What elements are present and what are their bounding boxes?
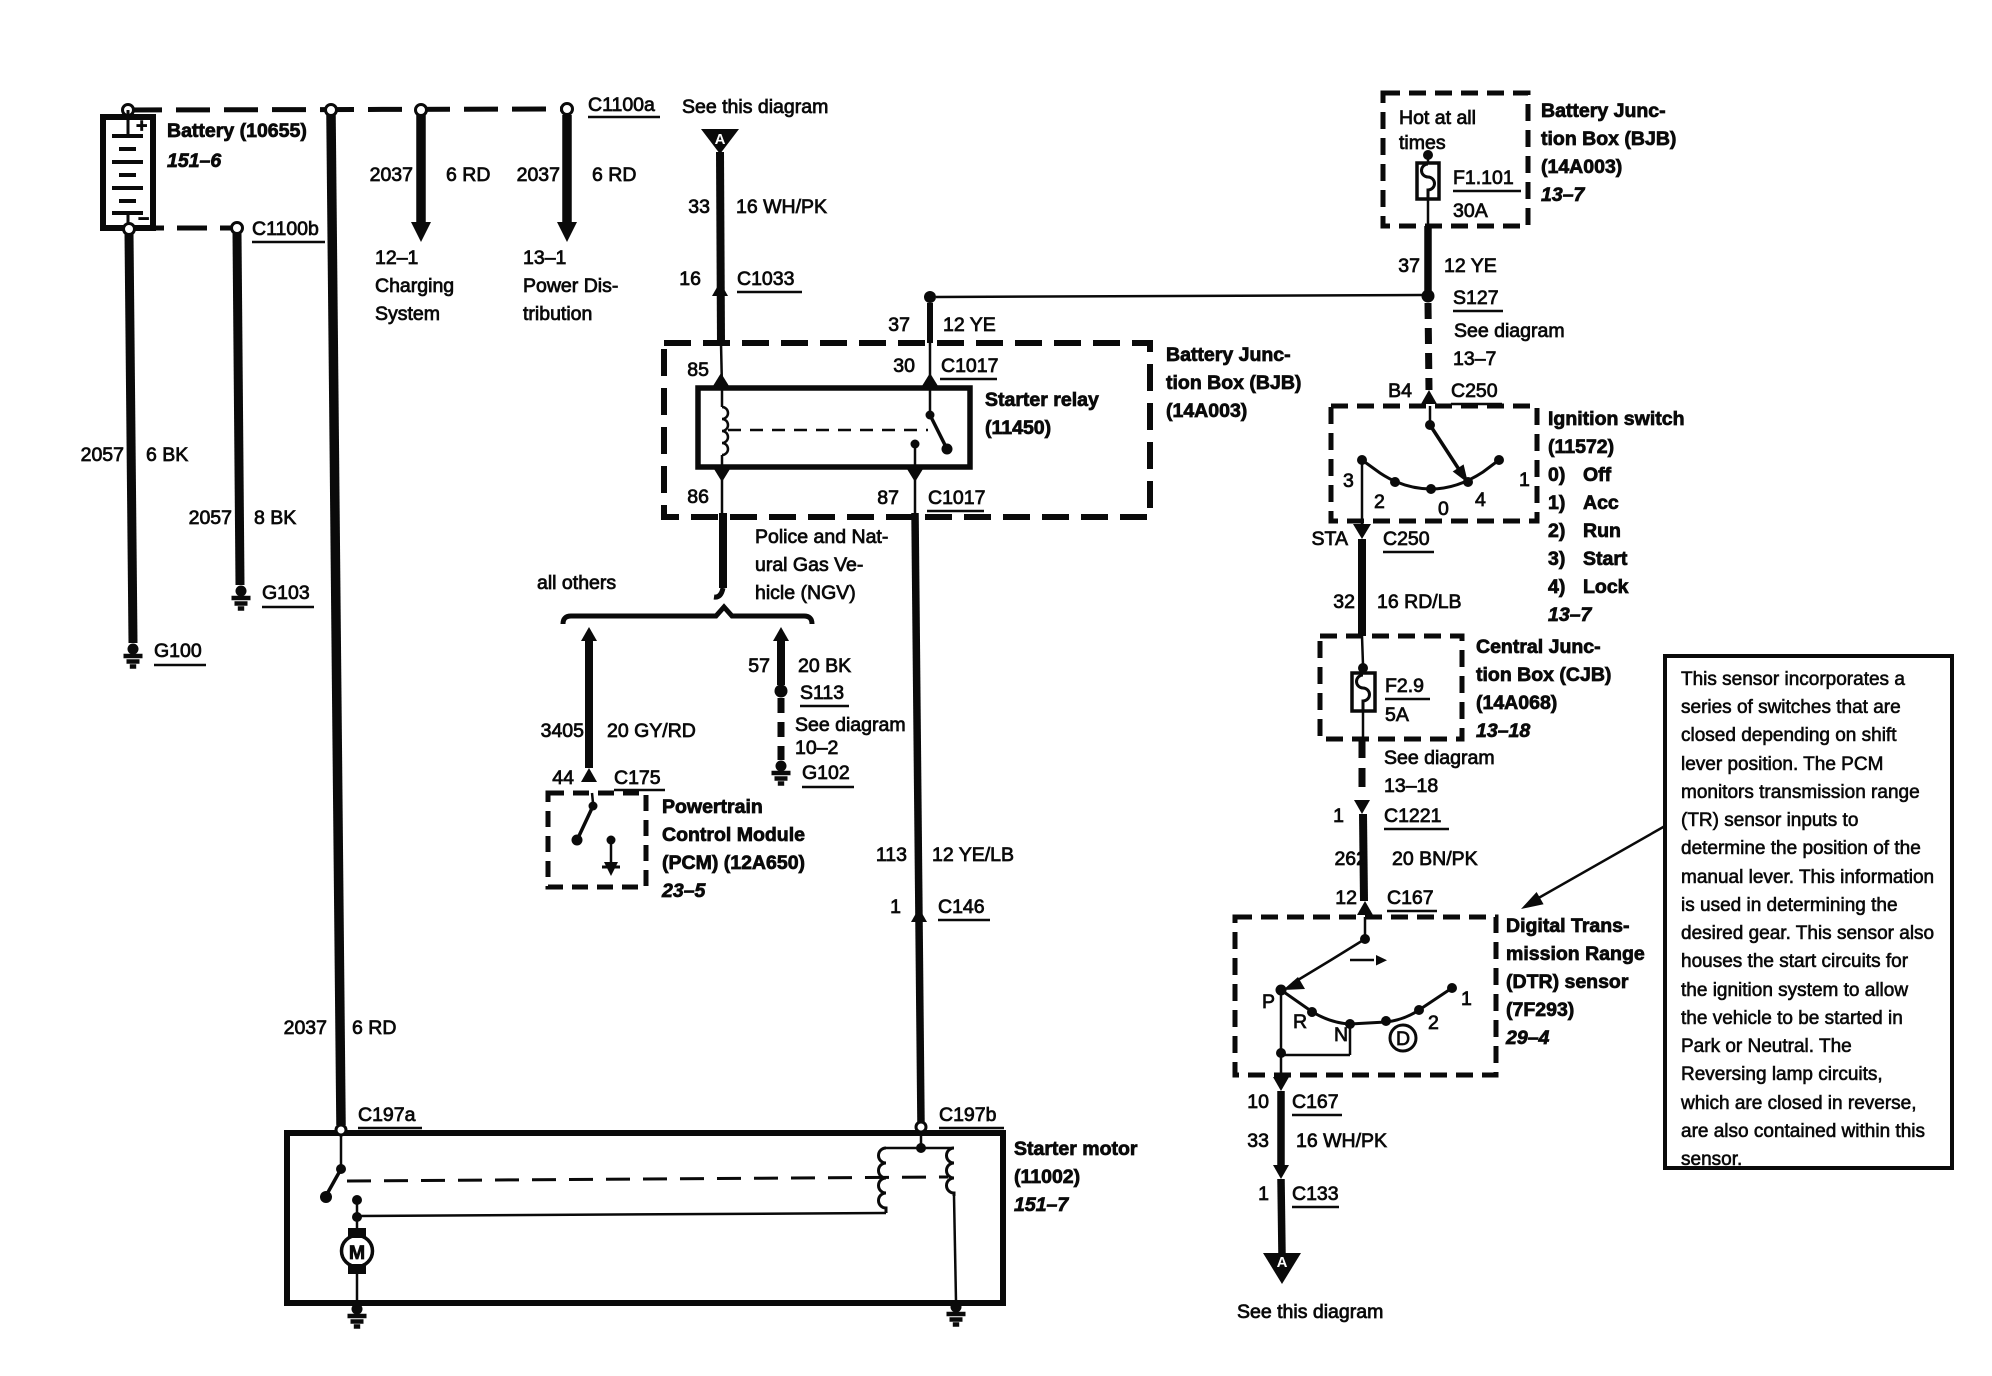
connector C167 arrowhead up	[1357, 901, 1373, 915]
wire pin85 lead inside BJB	[721, 343, 722, 388]
node: battery - terminal circle	[124, 224, 135, 235]
svg-text:2037: 2037	[517, 164, 560, 186]
solenoid plunger dashed link	[347, 1177, 948, 1181]
svg-text:the ignition system to allow: the ignition system to allow	[1681, 980, 1908, 1001]
battery bus dashed wire (top)	[128, 109, 567, 110]
svg-text:87: 87	[877, 487, 899, 509]
svg-text:A: A	[1277, 1254, 1288, 1271]
svg-text:Central Junc-: Central Junc-	[1476, 636, 1601, 658]
svg-text:P: P	[1262, 991, 1275, 1013]
svg-text:(7F293): (7F293)	[1506, 999, 1574, 1021]
svg-text:N: N	[1334, 1024, 1348, 1046]
wire branch to S113	[777, 641, 785, 685]
svg-text:C167: C167	[1292, 1091, 1339, 1113]
connector C1033 arrowhead	[712, 282, 728, 296]
svg-text:2: 2	[1374, 491, 1385, 513]
pin 85 arrowhead	[713, 373, 729, 386]
svg-text:Lock: Lock	[1583, 576, 1629, 598]
position dot 4	[1463, 477, 1473, 487]
svg-text:16 WH/PK: 16 WH/PK	[736, 196, 827, 218]
DTR rotor feed	[1364, 917, 1367, 936]
svg-text:33: 33	[1247, 1130, 1269, 1152]
svg-text:C146: C146	[938, 896, 985, 918]
wire pin 86 lead below relay	[721, 467, 724, 513]
svg-text:D: D	[1396, 1028, 1410, 1050]
node A: incoming diagram arrow	[701, 129, 739, 154]
contact dot R	[1307, 1007, 1317, 1017]
svg-text:12–1: 12–1	[375, 247, 418, 269]
svg-text:4): 4)	[1548, 576, 1565, 598]
PCM internal switch	[592, 793, 593, 803]
svg-text:Battery Junc-: Battery Junc-	[1166, 344, 1291, 366]
wire: tap arrow to power distribution	[562, 115, 572, 224]
position dot 1	[1494, 455, 1504, 465]
svg-text:Park or Neutral. The: Park or Neutral. The	[1681, 1036, 1852, 1057]
svg-text:37: 37	[888, 314, 910, 336]
svg-text:151–7: 151–7	[1014, 1194, 1069, 1216]
svg-text:12 YE: 12 YE	[1444, 255, 1497, 277]
svg-text:manual lever. This information: manual lever. This information	[1681, 867, 1934, 888]
svg-text:all others: all others	[537, 572, 616, 594]
svg-text:3405: 3405	[541, 720, 585, 742]
wire pin30 lead inside BJB	[929, 343, 932, 388]
svg-text:Charging: Charging	[375, 275, 454, 297]
wire pin 87 lead below relay	[914, 467, 917, 513]
svg-text:20 BK: 20 BK	[798, 655, 851, 677]
svg-text:32: 32	[1333, 591, 1355, 613]
svg-text:STA: STA	[1312, 528, 1348, 550]
svg-text:G102: G102	[802, 762, 850, 784]
svg-text:0): 0)	[1548, 464, 1565, 486]
svg-text:C197b: C197b	[939, 1104, 997, 1126]
svg-text:Starter motor: Starter motor	[1014, 1138, 1138, 1160]
PCM internal start-signal contact	[607, 836, 616, 845]
svg-text:(DTR) sensor: (DTR) sensor	[1506, 971, 1629, 993]
svg-text:+: +	[136, 115, 147, 137]
relay movable blade	[930, 415, 946, 447]
relay armature dashed link	[728, 429, 928, 432]
solenoid pull-in coil	[879, 1148, 886, 1213]
wire C1221 to C167	[1363, 814, 1364, 901]
node C1100b connector circle	[232, 223, 243, 234]
wire pin87 feed down to C197b	[915, 513, 921, 1125]
DTR contact arc P-R-N-D-2-1	[1281, 988, 1452, 1024]
ground G100	[124, 644, 143, 667]
ground G102	[772, 761, 791, 784]
svg-text:1: 1	[1333, 805, 1344, 827]
svg-text:(14A068): (14A068)	[1476, 692, 1557, 714]
ground (starter motor case)	[348, 1304, 367, 1327]
svg-text:hicle (NGV): hicle (NGV)	[755, 582, 856, 604]
svg-text:44: 44	[552, 767, 574, 789]
wire C167 to C133	[1277, 1091, 1285, 1165]
wire STA from position 3	[1361, 460, 1364, 524]
svg-text:mission Range: mission Range	[1506, 943, 1645, 965]
svg-text:1: 1	[1461, 988, 1472, 1010]
svg-text:(11572): (11572)	[1548, 436, 1614, 458]
wire: main battery feed down to C197a (starter motor)	[331, 115, 341, 1125]
svg-text:tion Box (CJB): tion Box (CJB)	[1476, 664, 1611, 686]
svg-text:A: A	[715, 131, 726, 148]
wire C1100b down to G103	[237, 233, 240, 585]
svg-text:Digital Trans-: Digital Trans-	[1506, 915, 1630, 937]
svg-text:57: 57	[748, 655, 770, 677]
contact dot (between N and 2)	[1381, 1016, 1391, 1026]
svg-text:B4: B4	[1388, 380, 1412, 402]
wire CJB to C1221 (shown dashed)	[1359, 739, 1366, 797]
svg-text:Starter relay: Starter relay	[985, 389, 1099, 411]
svg-text:See diagram: See diagram	[1454, 320, 1565, 342]
svg-text:C133: C133	[1292, 1183, 1339, 1205]
svg-text:13–18: 13–18	[1384, 775, 1438, 797]
svg-text:Start: Start	[1583, 548, 1628, 570]
svg-text:desired gear. This sensor also: desired gear. This sensor also	[1681, 923, 1934, 944]
svg-text:See diagram: See diagram	[1384, 747, 1495, 769]
branch arrowhead to PCM leg	[581, 627, 597, 641]
svg-text:M: M	[349, 1242, 365, 1264]
wire 86 thick drop to branch split	[719, 513, 727, 588]
node: junction circle at charging-system tap	[416, 105, 427, 116]
wire P to N link	[1280, 990, 1283, 1052]
svg-text:4: 4	[1475, 489, 1486, 511]
pin 86 arrowhead down	[714, 469, 730, 482]
svg-text:ural Gas Ve-: ural Gas Ve-	[755, 554, 863, 576]
svg-text:See this diagram: See this diagram	[1237, 1301, 1383, 1323]
wire S113 to G102 (shown dashed)	[778, 698, 785, 760]
svg-text:times: times	[1399, 132, 1446, 154]
svg-text:5A: 5A	[1385, 704, 1409, 726]
svg-text:tion Box (BJB): tion Box (BJB)	[1166, 372, 1301, 394]
position dot 0	[1426, 484, 1436, 494]
DTR motion arrow	[1350, 959, 1374, 962]
relay contact: pin30 stationary	[929, 388, 932, 412]
relay coil	[721, 388, 724, 407]
pin 30 arrowhead	[922, 373, 938, 386]
node A: outgoing diagram arrow	[1263, 1253, 1301, 1284]
wire junction down to relay pin 30	[927, 303, 933, 343]
connector C175 arrowhead	[581, 768, 597, 782]
svg-text:S113: S113	[800, 682, 844, 704]
svg-text:Off: Off	[1583, 464, 1612, 486]
note pointer arrow to DTR sensor	[1535, 826, 1665, 900]
svg-text:(PCM) (12A650): (PCM) (12A650)	[662, 852, 805, 874]
svg-text:8 BK: 8 BK	[254, 507, 296, 529]
svg-text:the vehicle to be started in: the vehicle to be started in	[1681, 1008, 1903, 1029]
branch split bracket	[563, 607, 812, 624]
svg-text:13–7: 13–7	[1541, 184, 1586, 206]
svg-text:23–5: 23–5	[661, 880, 707, 902]
battery BAT1 (10655)	[103, 110, 153, 230]
svg-text:C1017: C1017	[928, 487, 985, 509]
contact dot 2	[1414, 1005, 1424, 1015]
svg-text:sensor.: sensor.	[1681, 1149, 1742, 1170]
svg-text:6 RD: 6 RD	[446, 164, 490, 186]
node S-junction on 12 YE feed	[924, 291, 936, 303]
svg-text:See diagram: See diagram	[795, 714, 906, 736]
svg-text:20 GY/RD: 20 GY/RD	[607, 720, 696, 742]
svg-text:C1100a: C1100a	[588, 94, 655, 116]
svg-text:1: 1	[890, 896, 901, 918]
svg-text:12 YE/LB: 12 YE/LB	[932, 844, 1014, 866]
svg-text:13–7: 13–7	[1453, 348, 1496, 370]
svg-text:C175: C175	[614, 767, 661, 789]
svg-text:13–1: 13–1	[523, 247, 566, 269]
svg-text:6 RD: 6 RD	[352, 1017, 396, 1039]
svg-text:See this diagram: See this diagram	[682, 96, 828, 118]
Hot at all times dashed box	[1383, 93, 1528, 226]
wire fuse output down to S127	[1424, 226, 1432, 291]
wire C133 to out-arrow A	[1281, 1179, 1282, 1255]
svg-text:monitors transmission range: monitors transmission range	[1681, 782, 1920, 803]
svg-text:C167: C167	[1387, 887, 1434, 909]
ground G103	[232, 586, 251, 609]
Powertrain Control Module (PCM) dashed box	[548, 793, 646, 887]
wire C197b into solenoid	[920, 1132, 923, 1146]
svg-text:0: 0	[1438, 498, 1449, 520]
svg-text:3: 3	[1343, 470, 1354, 492]
svg-text:Acc: Acc	[1583, 492, 1619, 514]
branch arrowhead to S113 leg	[773, 627, 789, 641]
svg-text:151–6: 151–6	[167, 150, 221, 172]
svg-text:Run: Run	[1583, 520, 1621, 542]
svg-text:(14A003): (14A003)	[1166, 400, 1247, 422]
svg-text:series of switches that are: series of switches that are	[1681, 697, 1901, 718]
ground (solenoid)	[947, 1302, 966, 1325]
svg-text:29–4: 29–4	[1505, 1027, 1550, 1049]
relay pin 87 stationary contact	[911, 440, 920, 449]
svg-text:1: 1	[1519, 469, 1530, 491]
svg-text:G103: G103	[262, 582, 310, 604]
connector C250 arrowhead (B4)	[1421, 390, 1437, 404]
svg-text:3): 3)	[1548, 548, 1565, 570]
svg-text:Control Module: Control Module	[662, 824, 805, 846]
svg-text:Ignition switch: Ignition switch	[1548, 408, 1685, 430]
svg-text:13–18: 13–18	[1476, 720, 1530, 742]
node C197a connector circle	[336, 1125, 346, 1135]
svg-text:R: R	[1293, 1011, 1307, 1033]
svg-text:Power Dis-: Power Dis-	[523, 275, 618, 297]
wire branch to C175/PCM	[585, 641, 593, 768]
svg-text:16 WH/PK: 16 WH/PK	[1296, 1130, 1387, 1152]
STA arrowhead down	[1353, 524, 1371, 539]
node S113 splice	[775, 685, 788, 698]
svg-text:13–7: 13–7	[1548, 604, 1593, 626]
svg-text:20 BN/PK: 20 BN/PK	[1392, 848, 1478, 870]
fuse F1.101 30A	[1417, 150, 1439, 226]
svg-text:Battery Junc-: Battery Junc-	[1541, 100, 1666, 122]
svg-text:Battery (10655): Battery (10655)	[167, 120, 307, 142]
contact dot N	[1345, 1019, 1355, 1029]
svg-text:2): 2)	[1548, 520, 1565, 542]
svg-text:C1221: C1221	[1384, 805, 1441, 827]
svg-text:This sensor incorporates a: This sensor incorporates a	[1681, 669, 1905, 690]
pin 87 arrowhead down	[907, 469, 923, 482]
note box about TR sensor	[1665, 656, 1952, 1168]
wire: tap arrow to charging system	[416, 115, 426, 224]
svg-text:16 RD/LB: 16 RD/LB	[1377, 591, 1462, 613]
node C1100a connector circle	[562, 104, 573, 115]
svg-text:16: 16	[679, 268, 701, 290]
svg-text:S127: S127	[1453, 287, 1499, 309]
svg-text:(11450): (11450)	[985, 417, 1051, 439]
svg-text:C1033: C1033	[737, 268, 794, 290]
svg-text:lever position. The PCM: lever position. The PCM	[1681, 754, 1883, 775]
svg-text:86: 86	[687, 486, 709, 508]
wire hold-in coil to case ground	[954, 1196, 956, 1301]
connector C1221 arrowhead down	[1354, 800, 1370, 814]
svg-text:Reversing lamp circuits,: Reversing lamp circuits,	[1681, 1064, 1883, 1085]
svg-text:12 YE: 12 YE	[943, 314, 996, 336]
svg-text:F2.9: F2.9	[1385, 675, 1424, 697]
wire battery- down to G100	[129, 233, 133, 643]
svg-text:85: 85	[687, 359, 709, 381]
svg-text:are also contained within this: are also contained within this	[1681, 1121, 1925, 1142]
svg-text:33: 33	[688, 196, 710, 218]
svg-text:1): 1)	[1548, 492, 1565, 514]
svg-text:tion Box (BJB): tion Box (BJB)	[1541, 128, 1676, 150]
ignition switch blade toward 4	[1430, 425, 1460, 471]
svg-text:Powertrain: Powertrain	[662, 796, 763, 818]
svg-text:10–2: 10–2	[795, 737, 838, 759]
starter relay K1 (11450) body	[698, 388, 970, 467]
svg-text:2: 2	[1428, 1012, 1439, 1034]
contact dot 1	[1447, 983, 1457, 993]
svg-text:determine the position of the: determine the position of the	[1681, 838, 1921, 859]
svg-text:G100: G100	[154, 640, 202, 662]
svg-text:C197a: C197a	[358, 1104, 416, 1126]
DTR wiper arm	[1293, 939, 1365, 983]
dashed wire battery- to C1100b	[134, 226, 237, 231]
svg-text:closed depending on shift: closed depending on shift	[1681, 725, 1897, 746]
svg-text:which are closed in reverse,: which are closed in reverse,	[1680, 1093, 1917, 1114]
wire junction to S127 (long horizontal)	[936, 295, 1422, 297]
svg-text:is used in determining the: is used in determining the	[1681, 895, 1898, 916]
connector C146 arrowhead	[911, 908, 927, 922]
ignition switch rotor feed	[1429, 406, 1432, 422]
node: junction circle on bus at main wire	[326, 105, 337, 116]
position dot 3	[1357, 455, 1367, 465]
svg-text:Hot at all: Hot at all	[1399, 107, 1476, 129]
svg-text:C1017: C1017	[941, 355, 998, 377]
svg-text:F1.101: F1.101	[1453, 167, 1514, 189]
wire S127 to B4 (shown dashed)	[1428, 303, 1429, 390]
label D (circled)	[1390, 1025, 1416, 1051]
node C197b connector circle	[916, 1122, 926, 1132]
Ignition switch dashed box	[1331, 406, 1537, 521]
svg-text:2057: 2057	[189, 507, 232, 529]
wire STA down to CJB	[1358, 539, 1366, 636]
fuse F2.9 5A	[1352, 636, 1375, 739]
wire motor node to solenoid coil return	[357, 1213, 886, 1216]
Digital Transmission Range (DTR) sensor dashed box	[1235, 917, 1496, 1075]
motor M1	[356, 1217, 359, 1228]
svg-text:2037: 2037	[284, 1017, 327, 1039]
svg-text:2057: 2057	[81, 444, 124, 466]
svg-text:30: 30	[893, 355, 915, 377]
svg-text:262: 262	[1334, 848, 1367, 870]
svg-text:Police and Nat-: Police and Nat-	[755, 526, 888, 548]
starter motor (11002) enclosure	[287, 1133, 1003, 1303]
svg-text:tribution: tribution	[523, 303, 592, 325]
Battery Junction Box (BJB) dashed enclosure	[664, 343, 1150, 517]
Central Junction Box (CJB) dashed box	[1320, 636, 1462, 739]
svg-text:(TR) sensor inputs to: (TR) sensor inputs to	[1681, 810, 1858, 831]
position dot 2	[1390, 477, 1400, 487]
svg-text:2037: 2037	[370, 164, 413, 186]
node S127 splice	[1422, 290, 1435, 303]
solenoid hold-in coil	[947, 1148, 954, 1196]
wire P output to C167	[1280, 1055, 1283, 1077]
svg-text:6 BK: 6 BK	[146, 444, 188, 466]
svg-text:C1100b: C1100b	[252, 218, 319, 240]
svg-text:37: 37	[1398, 255, 1420, 277]
node: battery + terminal connector circle	[123, 105, 134, 116]
starter motor feed node	[352, 1195, 362, 1205]
contact P	[1276, 985, 1287, 996]
wire A to starter relay coil	[720, 152, 721, 343]
svg-text:(11002): (11002)	[1014, 1166, 1080, 1188]
svg-text:System: System	[375, 303, 440, 325]
svg-text:(14A003): (14A003)	[1541, 156, 1622, 178]
svg-text:10: 10	[1247, 1091, 1269, 1113]
svg-text:C250: C250	[1451, 380, 1498, 402]
svg-text:30A: 30A	[1453, 200, 1488, 222]
svg-text:houses the start circuits for: houses the start circuits for	[1681, 951, 1909, 972]
svg-text:1: 1	[1258, 1183, 1269, 1205]
ignition switch position contacts arc	[1362, 460, 1499, 489]
svg-text:6 RD: 6 RD	[592, 164, 636, 186]
svg-text:C250: C250	[1383, 528, 1430, 550]
svg-text:113: 113	[876, 844, 907, 866]
svg-text:12: 12	[1335, 887, 1357, 909]
connector C133 arrowhead	[1273, 1165, 1289, 1179]
starter internal switch	[340, 1135, 343, 1166]
